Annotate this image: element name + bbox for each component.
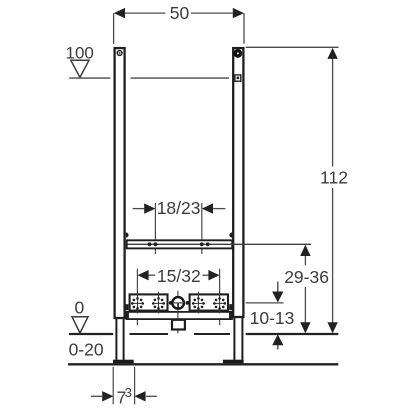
wire: raw floor line: [68, 363, 338, 365]
wire: finished floor hidden dash 2: [194, 333, 230, 335]
dimension 7 line: [91, 395, 102, 397]
wire: crossbar axis line to 29-36: [128, 243, 312, 245]
arrow 50 left: [114, 8, 125, 18]
crossbar clamp right: [229, 232, 232, 237]
wire: 15/32 extension line left: [136, 269, 138, 325]
dimension 29-36 line: [304, 255, 306, 265]
dimension 18/23 line: [133, 208, 145, 210]
arrow 112 top: [327, 48, 337, 59]
svg-text:18/23: 18/23: [157, 198, 201, 218]
svg-text:0-20: 0-20: [69, 340, 104, 360]
wire: 10-13 extension line: [246, 302, 284, 304]
left leg: [115, 318, 117, 360]
level triangle 0: [72, 317, 88, 333]
left foot plate: [113, 360, 134, 364]
left rail profile: [115, 48, 125, 318]
mounting block left: [130, 294, 168, 310]
hole cluster 4: [213, 292, 226, 314]
drain plate end cap left: [126, 312, 129, 320]
drain clamp wedge: [174, 319, 181, 322]
arrow 15/32 right: [208, 270, 219, 280]
drain centre line: [177, 291, 179, 334]
arrow 7 right: [134, 391, 145, 401]
drain side bolt right: [186, 301, 190, 305]
arrow 7 left: [102, 391, 113, 401]
right foot plate: [223, 360, 244, 364]
right rail flush plate detail: [235, 75, 241, 81]
left rail top hole: [117, 51, 122, 56]
mounting block right: [190, 294, 228, 310]
level triangle 100: [71, 60, 89, 77]
wire: finished floor line right: [246, 333, 339, 335]
plate clamp right: [229, 304, 233, 310]
arrow 18/23 left: [144, 203, 155, 213]
wire: finished floor line left: [69, 333, 113, 335]
wire: 18/23 extension line left: [154, 203, 156, 254]
arrow 112 bottom: [327, 322, 337, 333]
drain outlet socket: [172, 320, 185, 330]
dimension 50 line: [125, 12, 166, 14]
right rail top hole: [235, 50, 242, 57]
wire: dim 7 extension line right: [134, 367, 136, 405]
wire: dim-50 extension line right: [243, 13, 245, 44]
plate clamp left: [126, 304, 129, 310]
dimension 15/32 line: [148, 274, 155, 276]
svg-text:100: 100: [66, 43, 94, 62]
drain side bolt left: [169, 301, 173, 305]
svg-text:3: 3: [125, 385, 132, 400]
arrow 29-36 top: [300, 245, 310, 256]
svg-text:112: 112: [320, 167, 348, 187]
wire: finished floor hidden dash 1: [130, 333, 169, 335]
drain plate: [127, 312, 233, 319]
wire: dim-50 extension line left: [113, 13, 115, 44]
crossbar bolt left pair: [148, 242, 152, 246]
drain plate end cap right: [229, 312, 232, 320]
svg-text:0: 0: [75, 298, 85, 318]
hole cluster 1: [131, 292, 144, 314]
wire: level line 100 left segment: [69, 77, 110, 79]
drain pipe circle: [172, 297, 184, 309]
svg-text:29-36: 29-36: [284, 267, 329, 287]
arrow 18/23 right: [202, 203, 213, 213]
wire: dim 7 extension line left: [112, 367, 114, 405]
right rail profile: [233, 48, 243, 317]
arrow 15/32 left: [137, 270, 148, 280]
svg-text:50: 50: [170, 3, 190, 23]
dimension 112 line: [332, 58, 334, 167]
wire: 15/32 extension line right: [219, 269, 221, 325]
right leg: [233, 317, 235, 360]
svg-text:15/32: 15/32: [157, 266, 201, 286]
arrow 50 right: [233, 8, 244, 18]
hole cluster 3: [192, 292, 205, 314]
arrow 10-13 top: [277, 282, 279, 293]
hole cluster 2: [152, 292, 165, 314]
crossbar bolt right pair: [200, 242, 204, 246]
arrow 29-36 bottom: [300, 322, 310, 333]
wire: level line 100 right segment: [131, 77, 230, 79]
crossbar profile: [127, 240, 233, 248]
crossbar clamp left: [126, 232, 129, 237]
svg-text:10-13: 10-13: [250, 308, 295, 328]
wire: 18/23 extension line right: [201, 203, 203, 254]
wire: top extension line to 112: [246, 46, 339, 48]
arrow 10-13 bottom: [277, 345, 279, 350]
